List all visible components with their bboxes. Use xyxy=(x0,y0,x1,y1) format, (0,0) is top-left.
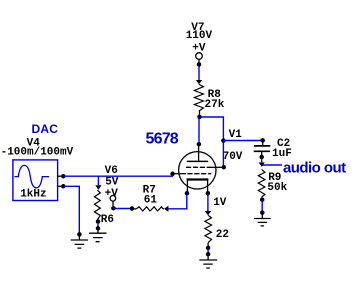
svg-text:R6: R6 xyxy=(101,214,114,226)
cathode xyxy=(187,178,209,180)
current arrow R6 xyxy=(95,185,101,189)
ground 1 xyxy=(71,237,88,249)
svg-text:50k: 50k xyxy=(267,182,287,194)
pin dot DAC - xyxy=(61,184,66,189)
svg-text:22: 22 xyxy=(216,229,229,241)
wire +V to R8 xyxy=(198,67,200,81)
pin dot plate xyxy=(197,142,202,147)
current arrow R7 xyxy=(164,206,168,212)
svg-text:70V: 70V xyxy=(223,151,243,163)
DAC source box xyxy=(13,160,58,201)
wire Rk to ground xyxy=(207,248,209,254)
svg-text:27k: 27k xyxy=(205,99,225,111)
plate lead xyxy=(198,144,200,161)
pin dot ground 4 xyxy=(260,210,265,215)
wire V1 to C2 xyxy=(223,140,262,142)
svg-text:DAC: DAC xyxy=(32,122,59,136)
wire R6 tee xyxy=(97,176,99,185)
svg-text:61: 61 xyxy=(144,195,158,207)
pin dot DAC + xyxy=(61,174,66,179)
ground 4 xyxy=(254,215,271,226)
ground 2 xyxy=(89,230,106,241)
svg-text:-100m/100mV: -100m/100mV xyxy=(1,147,74,159)
resistor R9 xyxy=(258,169,265,197)
pin dot R9 bottom xyxy=(260,197,265,202)
tube envelope xyxy=(179,152,216,189)
resistor R8 xyxy=(194,84,203,111)
svg-text:V6: V6 xyxy=(105,165,118,177)
pin dot cathode left xyxy=(185,191,190,196)
cathode legs xyxy=(186,181,188,192)
svg-text:5678: 5678 xyxy=(146,131,179,148)
wire V6 to R7 xyxy=(113,208,131,210)
wire C2 to R9 xyxy=(261,157,263,162)
current arrow Rk xyxy=(205,211,211,215)
current arrow R8 xyxy=(196,80,202,84)
wire R8 to plate xyxy=(198,117,200,144)
pin dot Rk bottom xyxy=(206,246,211,251)
pin dot ground 2 xyxy=(96,226,101,231)
svg-text:110V: 110V xyxy=(186,30,213,42)
pin dot ground 1 xyxy=(77,232,82,237)
svg-text:1kHz: 1kHz xyxy=(20,189,46,201)
pin dot R6 bottom xyxy=(96,219,101,224)
current arrow R9 xyxy=(259,162,265,166)
svg-text:5V: 5V xyxy=(105,176,119,188)
wire R6 to ground xyxy=(97,222,99,228)
wire R9 to ground xyxy=(261,200,263,212)
svg-text:audio out: audio out xyxy=(283,160,346,177)
junction dot V1 xyxy=(221,138,226,143)
pin dot C2 top xyxy=(260,138,265,143)
pin dot cathode right xyxy=(206,191,211,196)
control grid xyxy=(187,173,211,175)
pin dot R7 left xyxy=(130,206,135,211)
pin dot R8 bottom xyxy=(197,115,202,120)
wire cathode to Rk xyxy=(207,194,209,211)
svg-text:1uF: 1uF xyxy=(272,148,292,160)
resistor R7 xyxy=(132,208,136,210)
screen grid xyxy=(186,166,211,168)
DAC pin stubs xyxy=(58,176,61,186)
svg-text:1V: 1V xyxy=(213,197,227,209)
pin dot C2 bottom xyxy=(259,155,264,160)
wire DAC to grid xyxy=(63,175,173,177)
pin dot screen grid xyxy=(222,165,227,170)
pin dot V6 xyxy=(111,206,116,211)
pin dot V7 xyxy=(198,59,200,62)
control grid lead xyxy=(175,173,187,175)
plate xyxy=(187,160,208,162)
wire audio out xyxy=(262,164,282,166)
resistor 22 xyxy=(205,215,212,242)
wire R8 to V1 node xyxy=(200,117,224,141)
ground 3 xyxy=(199,256,217,268)
resistor R6 xyxy=(95,190,101,219)
capacitor C2 xyxy=(254,145,270,147)
+V terminal circle V6 xyxy=(110,196,116,202)
wire DAC- to ground xyxy=(63,186,79,234)
screen grid lead xyxy=(211,166,222,168)
pin dot control grid xyxy=(170,172,175,177)
svg-text:V1: V1 xyxy=(229,129,243,141)
wire V1 to screen grid xyxy=(222,141,224,167)
pin dot ground 3 xyxy=(206,252,211,257)
+V terminal circle V7 xyxy=(196,53,203,60)
wire R7 to cathode xyxy=(167,194,187,209)
sine wave xyxy=(14,165,49,187)
